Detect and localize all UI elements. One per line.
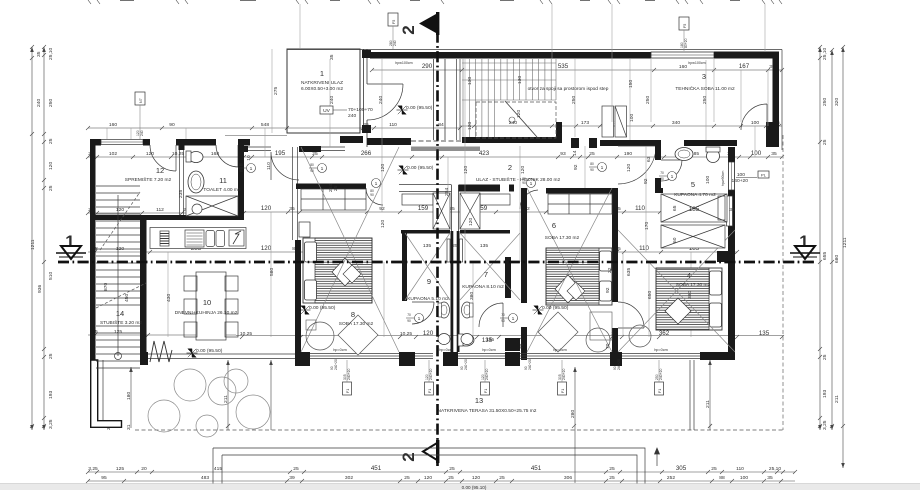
left stair flight upper (under room12) [96, 186, 140, 256]
front door leaf and swing [367, 84, 403, 120]
stair opening dashed [476, 102, 556, 138]
annex inner dim row y=70 [370, 68, 784, 72]
room8 west wall [293, 147, 298, 240]
bath9/7 north walls [401, 230, 450, 234]
svg-text:120: 120 [380, 220, 386, 228]
svg-text:SOBA 17.30 m2: SOBA 17.30 m2 [676, 282, 711, 288]
svg-text:380: 380 [687, 291, 693, 299]
toilet door [216, 145, 238, 167]
room6 wardrobe back wall [546, 188, 612, 194]
party wall double [451, 231, 454, 352]
section marker 1 right [790, 232, 820, 259]
room6 bed [546, 248, 612, 305]
svg-text:25,10: 25,10 [48, 47, 54, 60]
pier at room4 NE [717, 251, 728, 262]
svg-text:120: 120 [261, 205, 272, 212]
svg-text:266: 266 [361, 150, 372, 157]
svg-text:0.00 (95.50): 0.00 (95.50) [542, 305, 569, 311]
svg-text:250: 250 [645, 96, 651, 104]
svg-text:1: 1 [512, 316, 515, 322]
room8 entry door [366, 179, 383, 206]
svg-text:280: 280 [570, 410, 576, 418]
svg-text:1: 1 [320, 69, 324, 78]
trees [148, 369, 270, 437]
svg-text:110: 110 [635, 205, 645, 212]
svg-text:70: 70 [519, 343, 525, 349]
party wall slots [447, 239, 450, 262]
bath9 fixtures on party wall [438, 302, 450, 345]
left outer wall [90, 139, 96, 360]
svg-text:F5: F5 [683, 24, 687, 28]
svg-text:25: 25 [48, 353, 54, 359]
svg-text:hp=0cm: hp=0cm [333, 348, 347, 352]
svg-text:680: 680 [834, 255, 840, 263]
svg-text:1211: 1211 [30, 239, 36, 250]
svg-text:252: 252 [667, 475, 675, 481]
left stair flight lower room 14 [96, 263, 140, 368]
svg-text:KUPAONA 4.70 m2: KUPAONA 4.70 m2 [674, 192, 716, 198]
svg-text:2: 2 [399, 452, 418, 461]
hall north wall [462, 137, 556, 143]
svg-text:20: 20 [141, 466, 147, 472]
svg-text:F1: F1 [346, 389, 350, 393]
svg-text:2: 2 [508, 163, 512, 172]
svg-text:451: 451 [371, 465, 382, 472]
svg-text:hpw90cm: hpw90cm [721, 171, 725, 186]
bath5 west wall with door [655, 140, 661, 160]
svg-text:90: 90 [310, 169, 314, 173]
svg-text:0.00 (95.50): 0.00 (95.50) [406, 105, 433, 111]
svg-text:340: 340 [672, 120, 680, 126]
svg-text:NATKRIVENI ULAZ: NATKRIVENI ULAZ [301, 80, 343, 86]
svg-text:35: 35 [767, 475, 773, 481]
svg-text:167: 167 [739, 63, 750, 70]
svg-text:135: 135 [423, 243, 431, 249]
chimney blocks [602, 106, 627, 137]
svg-text:120: 120 [626, 164, 632, 172]
shallow wardrobes + X panels at party wall [402, 193, 510, 229]
svg-text:25: 25 [589, 151, 595, 157]
annex top wall east segment [714, 52, 779, 59]
svg-text:65: 65 [672, 205, 678, 211]
svg-text:10: 10 [246, 155, 252, 161]
svg-text:35: 35 [289, 206, 295, 212]
svg-text:90: 90 [169, 122, 175, 128]
svg-text:120: 120 [146, 151, 154, 157]
svg-text:hp=0cm: hp=0cm [553, 348, 567, 352]
svg-text:80: 80 [239, 163, 243, 167]
svg-text:25,10: 25,10 [822, 47, 828, 60]
svg-text:F1: F1 [428, 389, 432, 393]
svg-text:380: 380 [469, 292, 475, 300]
svg-text:190: 190 [624, 151, 632, 157]
terrace door arcs kitchen [271, 152, 299, 180]
svg-text:SPREMIŠTE 7.20 m2: SPREMIŠTE 7.20 m2 [125, 176, 172, 183]
bath5 sink + wc [675, 148, 693, 161]
toilet south wall [95, 215, 244, 220]
svg-text:N7: N7 [139, 98, 143, 103]
svg-text:305: 305 [676, 465, 687, 472]
svg-text:240: 240 [348, 113, 356, 119]
svg-text:240+20: 240+20 [617, 359, 621, 370]
svg-text:320: 320 [834, 98, 840, 106]
small window sill texts bottom wall [330, 359, 621, 370]
svg-text:240+20: 240+20 [464, 359, 468, 370]
vestibule south wall [367, 138, 411, 145]
lintel dashed [411, 140, 462, 142]
svg-text:195: 195 [275, 150, 286, 157]
UV door tag [320, 106, 373, 119]
svg-text:240: 240 [393, 40, 397, 46]
interior vertical dims: terrace depth etc [129, 360, 712, 483]
svg-text:240+20: 240+20 [562, 368, 566, 380]
PL window tag [732, 171, 769, 184]
toilet east wall [238, 139, 244, 218]
stair dim row y=333 [88, 333, 236, 337]
svg-text:70: 70 [407, 313, 411, 317]
svg-text:240+20: 240+20 [659, 368, 663, 380]
svg-text:80: 80 [590, 162, 594, 166]
svg-text:102: 102 [109, 151, 117, 157]
room bottom dim row y=337 [236, 335, 784, 339]
svg-text:100: 100 [751, 120, 759, 126]
svg-text:otvor za spoji sa prostorom is: otvor za spoji sa prostorom ispod step [528, 86, 609, 92]
svg-text:TEHNIČKA SOBA 11.00 m2: TEHNIČKA SOBA 11.00 m2 [675, 85, 735, 92]
svg-text:240: 240 [329, 96, 335, 104]
room4 door [618, 302, 644, 328]
kitchen north wall piers [238, 146, 248, 152]
svg-text:hpw100cm: hpw100cm [688, 61, 705, 65]
svg-text:93: 93 [560, 151, 566, 157]
svg-text:hp=0cm: hp=0cm [654, 348, 668, 352]
svg-text:10,25: 10,25 [400, 331, 413, 337]
east wall windows [729, 162, 735, 190]
svg-text:936: 936 [37, 285, 43, 293]
svg-text:SOBA 17.30 m2: SOBA 17.30 m2 [339, 321, 374, 327]
svg-text:240+20: 240+20 [485, 368, 489, 380]
svg-text:140+20: 140+20 [732, 178, 749, 184]
svg-text:1: 1 [799, 232, 808, 251]
F5 tag top right [679, 17, 689, 51]
svg-text:9: 9 [427, 277, 431, 286]
bedroom dim row y=212 [244, 210, 662, 214]
room6 wardrobe [548, 194, 612, 214]
svg-text:90: 90 [501, 319, 505, 323]
N7 tag left [135, 92, 145, 139]
svg-text:hp=0cm: hp=0cm [439, 348, 453, 352]
svg-text:580: 580 [269, 268, 275, 276]
hall corridor door [618, 146, 656, 184]
room4 closet X [661, 225, 725, 248]
room4 bed [656, 268, 722, 330]
svg-text:14: 14 [116, 309, 124, 318]
svg-text:240: 240 [378, 96, 384, 104]
annex top wall west segment [370, 52, 651, 59]
svg-text:F5: F5 [392, 20, 396, 24]
svg-text:TOALET 4.00 m2: TOALET 4.00 m2 [203, 187, 240, 193]
toilet room fixtures [186, 151, 204, 193]
svg-text:ULAZ - STUBIŠTE - HODNIK 28.00: ULAZ - STUBIŠTE - HODNIK 28.00 m2 [476, 176, 561, 183]
svg-text:100: 100 [629, 114, 635, 122]
bath7 interior wall bar [505, 257, 511, 298]
svg-text:10: 10 [203, 298, 211, 307]
terrace dashed edge [135, 429, 783, 431]
section lines overlay [58, 12, 816, 466]
svg-text:120: 120 [472, 475, 480, 481]
bath9 west wall [402, 231, 407, 301]
svg-text:90: 90 [590, 168, 594, 172]
room8 cross diagonals [301, 147, 399, 352]
room6 entry door [520, 177, 538, 209]
svg-text:423: 423 [479, 150, 490, 157]
svg-text:0.00 (95.50): 0.00 (95.50) [196, 348, 223, 354]
svg-text:110: 110 [266, 162, 272, 170]
svg-text:250: 250 [702, 96, 708, 104]
svg-text:240+20: 240+20 [347, 368, 351, 380]
svg-text:125: 125 [116, 466, 124, 472]
svg-text:SOBA 17.30 m2: SOBA 17.30 m2 [545, 235, 580, 241]
svg-text:1: 1 [601, 165, 604, 171]
svg-text:hp=0cm: hp=0cm [482, 348, 496, 352]
svg-text:35: 35 [771, 151, 777, 157]
svg-text:430: 430 [166, 294, 172, 302]
top dim row y=128 [86, 124, 782, 130]
section line 1-1 horizontal [58, 261, 816, 263]
room6 cross diagonals [527, 188, 612, 352]
svg-text:1211: 1211 [842, 237, 848, 248]
svg-text:DNEVNI+KUHINJA 26.10 m2: DNEVNI+KUHINJA 26.10 m2 [175, 310, 238, 316]
svg-text:635: 635 [626, 268, 632, 276]
annex right wall [773, 52, 780, 147]
svg-text:6.00X0.50+3.00 m2: 6.00X0.50+3.00 m2 [301, 86, 343, 92]
svg-text:1: 1 [65, 232, 74, 251]
svg-text:92: 92 [573, 164, 579, 170]
svg-text:F1: F1 [658, 389, 662, 393]
canopy edge line [225, 135, 287, 137]
svg-text:25: 25 [404, 475, 410, 481]
svg-text:F1: F1 [561, 389, 565, 393]
svg-text:185: 185 [689, 206, 700, 213]
tehnicka/bath5 north wall [600, 140, 661, 146]
svg-text:250: 250 [571, 96, 577, 104]
level markers [187, 105, 569, 357]
svg-text:211: 211 [705, 400, 711, 408]
svg-text:120: 120 [468, 218, 474, 226]
svg-text:88: 88 [719, 475, 725, 481]
svg-text:130: 130 [467, 77, 473, 85]
annex outer face line [287, 50, 782, 151]
svg-text:35: 35 [729, 207, 735, 213]
svg-text:100: 100 [740, 475, 748, 481]
svg-text:870: 870 [103, 283, 109, 291]
svg-text:240+20: 240+20 [334, 359, 338, 370]
svg-text:hpw100cm: hpw100cm [395, 61, 412, 65]
south windows [148, 354, 700, 359]
svg-text:0.00 (95.50): 0.00 (95.50) [309, 305, 336, 311]
upper stairs block room2 [462, 59, 556, 137]
room8 bed [299, 222, 372, 303]
svg-text:120: 120 [261, 245, 272, 252]
svg-text:92: 92 [643, 178, 649, 184]
svg-text:35: 35 [36, 51, 42, 57]
bath7 X cross [460, 233, 520, 300]
svg-text:90: 90 [660, 177, 664, 181]
svg-text:130: 130 [517, 76, 523, 84]
svg-text:25: 25 [448, 475, 454, 481]
svg-text:120: 120 [463, 166, 469, 174]
bath7 fixtures on party wall [461, 302, 473, 345]
svg-text:70+100+70: 70+100+70 [348, 107, 373, 113]
tehnicka door swing [741, 104, 767, 130]
svg-text:F1: F1 [484, 389, 488, 393]
svg-text:120: 120 [116, 207, 124, 213]
svg-text:PL: PL [761, 173, 767, 178]
svg-text:211: 211 [834, 395, 840, 403]
room6 west wall [521, 188, 527, 360]
svg-text:5: 5 [691, 180, 695, 189]
porch right wall with door opening [362, 49, 371, 147]
svg-text:180: 180 [126, 392, 132, 400]
svg-text:25: 25 [499, 475, 505, 481]
svg-text:290: 290 [422, 63, 433, 70]
svg-text:4: 4 [687, 271, 691, 280]
svg-text:235: 235 [178, 190, 184, 198]
svg-text:250: 250 [48, 99, 54, 107]
svg-text:25: 25 [293, 466, 299, 472]
bath9 north wall + door [412, 302, 434, 324]
svg-text:STUBIŠTE 3.20 m2: STUBIŠTE 3.20 m2 [100, 319, 142, 326]
room8 diamond chair [338, 315, 378, 355]
svg-text:159: 159 [418, 205, 429, 212]
bottom dim row 1 y=472 [86, 470, 797, 474]
bath9 X cross [405, 233, 450, 300]
svg-text:535: 535 [558, 63, 569, 70]
svg-text:135: 135 [480, 243, 488, 249]
svg-text:25,10: 25,10 [769, 466, 782, 472]
bath5 tub X [661, 194, 727, 222]
svg-text:3,25: 3,25 [88, 466, 98, 472]
top clipped dimension ticks [88, 0, 782, 4]
svg-text:0.00 (95.10): 0.00 (95.10) [462, 485, 487, 490]
room4 cross diagonals [618, 230, 735, 352]
svg-text:3,25: 3,25 [48, 419, 54, 429]
svg-text:160: 160 [679, 64, 687, 70]
corridor east wall right unit [612, 188, 618, 360]
svg-text:112: 112 [156, 207, 164, 213]
svg-text:25: 25 [609, 475, 615, 481]
svg-text:120: 120 [423, 330, 434, 337]
section marker 2 bottom [399, 440, 439, 463]
svg-text:240: 240 [140, 130, 144, 136]
svg-text:135: 135 [486, 337, 494, 343]
svg-text:120: 120 [516, 110, 522, 118]
svg-text:415: 415 [214, 466, 222, 472]
svg-text:120: 120 [380, 164, 386, 172]
south wall piers [295, 352, 310, 366]
north wall piece near porch [340, 136, 363, 143]
toilet shower X [186, 196, 238, 216]
svg-text:25: 25 [822, 354, 828, 360]
stair break diagonals dashed [96, 283, 146, 308]
top window [651, 52, 714, 58]
svg-text:150: 150 [628, 80, 634, 88]
svg-text:14: 14 [572, 150, 578, 156]
svg-text:655: 655 [822, 252, 828, 260]
svg-text:306: 306 [564, 475, 572, 481]
svg-text:8: 8 [351, 310, 355, 319]
svg-text:1: 1 [321, 166, 324, 172]
svg-text:13: 13 [475, 396, 483, 405]
svg-text:173: 173 [581, 120, 589, 126]
svg-text:80+20: 80+20 [684, 38, 688, 48]
svg-text:39: 39 [289, 475, 295, 481]
svg-text:451: 451 [531, 465, 542, 472]
svg-text:362: 362 [659, 330, 670, 337]
bottom gray taskbar strip [0, 484, 920, 490]
kitchen north windows [248, 147, 345, 151]
svg-text:90: 90 [239, 169, 243, 173]
porch outline room 1 [287, 49, 360, 133]
svg-text:25: 25 [711, 466, 717, 472]
wall piers hall [571, 138, 579, 148]
svg-text:120: 120 [48, 162, 54, 170]
bath5 south wall [655, 188, 663, 193]
svg-text:240+20: 240+20 [429, 368, 433, 380]
kitchen counter [150, 228, 246, 249]
svg-text:25: 25 [48, 185, 54, 191]
svg-text:25: 25 [822, 139, 828, 145]
svg-text:110: 110 [389, 122, 397, 128]
svg-text:70: 70 [660, 171, 664, 175]
svg-text:92: 92 [605, 287, 611, 293]
svg-text:60: 60 [672, 237, 678, 243]
svg-text:1: 1 [375, 181, 378, 187]
svg-text:193: 193 [48, 391, 54, 399]
room8 wardrobe [301, 189, 366, 210]
left dimension labels [30, 47, 54, 429]
svg-text:90: 90 [407, 319, 411, 323]
svg-text:25: 25 [452, 243, 458, 249]
bath7 door [479, 303, 503, 327]
roof outline above terrace [213, 448, 660, 484]
svg-text:25: 25 [333, 185, 339, 191]
interior rotated dims [103, 54, 735, 349]
stair west wall thin [457, 59, 461, 140]
spremiste door [150, 145, 176, 171]
svg-text:120: 120 [424, 475, 432, 481]
zigzag spring [150, 341, 172, 362]
svg-text:254: 254 [444, 188, 450, 196]
svg-text:KUPAONA 8.10 m2: KUPAONA 8.10 m2 [462, 284, 504, 290]
svg-text:120: 120 [467, 122, 473, 130]
left block dim row y=213 [86, 211, 246, 215]
svg-text:3: 3 [702, 72, 706, 81]
svg-text:63: 63 [646, 156, 652, 162]
svg-text:120: 120 [520, 166, 526, 174]
section line 2-2 vertical [436, 12, 438, 466]
svg-text:95: 95 [101, 475, 107, 481]
svg-text:1: 1 [671, 174, 674, 180]
svg-text:10,25: 10,25 [240, 331, 253, 337]
svg-text:70: 70 [605, 343, 611, 349]
F1 tags bottom [343, 360, 664, 395]
svg-text:90: 90 [370, 193, 374, 197]
svg-text:211: 211 [223, 395, 229, 403]
svg-text:1: 1 [418, 316, 421, 322]
svg-text:250: 250 [822, 98, 828, 106]
bath7 wc [458, 334, 474, 346]
stair shaft east wall [140, 218, 147, 362]
